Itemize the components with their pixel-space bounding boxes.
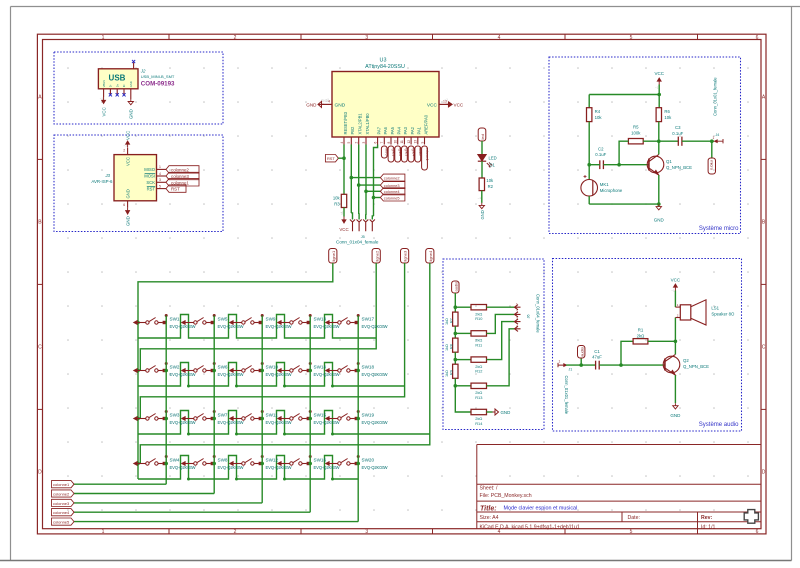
- junction R1 tap: [619, 363, 623, 367]
- wire to micro tag: [711, 141, 713, 158]
- wire ligne1 feeder: [138, 263, 333, 323]
- svg-text:SW18: SW18: [362, 364, 375, 369]
- svg-text:Mode clavier espion et musical: Mode clavier espion et musical: [504, 506, 578, 512]
- tag RST near U3: [325, 155, 338, 162]
- svg-text:VBUS: VBUS: [102, 80, 106, 87]
- wire R14 to GND: [487, 411, 493, 413]
- J3 top pin + VCC: [127, 148, 129, 155]
- svg-text:1kΩ: 1kΩ: [445, 370, 449, 377]
- svg-text:COM-09193: COM-09193: [141, 81, 175, 88]
- wire C1 to base: [599, 364, 665, 366]
- wire collector up: [658, 141, 660, 154]
- svg-text:J4: J4: [716, 133, 720, 137]
- svg-text:SW1: SW1: [170, 316, 180, 321]
- svg-text:colonne5: colonne5: [53, 520, 70, 525]
- resistor R11: [471, 331, 487, 336]
- svg-text:colonne2: colonne2: [171, 167, 189, 172]
- svg-text:SW8: SW8: [218, 457, 228, 462]
- svg-text:PA2: PA2: [410, 126, 415, 134]
- switch SW1: [134, 321, 138, 325]
- tag colonne5 (U3): [380, 194, 405, 201]
- svg-text:EVQ-Q2K03W: EVQ-Q2K03W: [314, 372, 340, 377]
- svg-text:1: 1: [516, 303, 518, 307]
- svg-text:RESET/PB3: RESET/PB3: [343, 111, 348, 134]
- svg-text:1kΩ: 1kΩ: [445, 318, 449, 325]
- switch SW11: [230, 417, 234, 421]
- wire collector up to speaker: [674, 318, 676, 355]
- wire R2 to GND: [481, 191, 483, 203]
- svg-text:~1: ~1: [655, 86, 659, 90]
- dashed box DAC ladder: [443, 259, 544, 430]
- svg-text:6: 6: [756, 529, 759, 535]
- wire C3 to connector J4: [682, 140, 714, 142]
- title block: [477, 444, 761, 446]
- tag colonne4 (bottom): [52, 509, 75, 516]
- svg-text:EVQ-Q2K03W: EVQ-Q2K03W: [362, 420, 388, 425]
- svg-text:SW4: SW4: [170, 457, 180, 462]
- wire row 3 bus with hops: [138, 411, 430, 435]
- svg-text:R8: R8: [449, 344, 453, 349]
- svg-text:RST: RST: [147, 186, 156, 191]
- wire VCC down: [658, 85, 660, 108]
- wire R4 down to C2 node: [588, 122, 590, 180]
- junction ladder row 4: [454, 384, 458, 388]
- svg-text:EVQ-Q2K03W: EVQ-Q2K03W: [314, 420, 340, 425]
- svg-text:R13: R13: [475, 395, 482, 400]
- tag colonne2 (U3): [380, 174, 405, 181]
- wire R5 left + down to base node: [619, 141, 628, 165]
- svg-text:U3: U3: [380, 58, 387, 64]
- svg-text:5: 5: [159, 184, 161, 188]
- svg-text:LS1: LS1: [711, 306, 719, 311]
- svg-text:Système micro: Système micro: [699, 226, 739, 232]
- svg-text:SW7: SW7: [218, 412, 228, 417]
- microphone MK1: [581, 180, 598, 197]
- connector J5 Conn_01x04_female: [350, 220, 355, 232]
- svg-text:ligne3: ligne3: [403, 250, 408, 261]
- svg-text:MISO: MISO: [144, 167, 155, 172]
- svg-text:R4: R4: [595, 109, 601, 114]
- svg-text:47uF: 47uF: [592, 354, 602, 359]
- svg-text:RST: RST: [171, 187, 180, 192]
- svg-text:ATtiny84-20SSU: ATtiny84-20SSU: [365, 64, 405, 70]
- svg-text:EVQ-Q2K03W: EVQ-Q2K03W: [362, 324, 388, 329]
- svg-text:1kΩ: 1kΩ: [445, 344, 449, 351]
- tag audio (vertical): [578, 346, 585, 359]
- switch SW19: [326, 417, 330, 421]
- tag colonne2 at MISO: [166, 166, 199, 173]
- mouse cursor crosshair: [744, 510, 758, 524]
- wire to tag colonne2: [351, 177, 380, 179]
- switch SW18: [326, 369, 330, 373]
- tag colonne3 (bottom): [52, 499, 75, 506]
- svg-text:SW6: SW6: [218, 364, 228, 369]
- switch SW17: [326, 321, 330, 325]
- junction micro output: [710, 139, 714, 143]
- top tag ligne2: [372, 249, 380, 264]
- tag colonne2 (bottom): [52, 490, 75, 497]
- svg-text:VCC: VCC: [654, 71, 664, 76]
- resistor R7: [453, 312, 458, 326]
- svg-text:led: led: [480, 134, 485, 139]
- wire R8-R9: [454, 352, 456, 364]
- wire row 1 left: [455, 306, 471, 308]
- svg-text:A: A: [38, 95, 42, 101]
- switch SW15: [278, 417, 282, 421]
- wire emitter down: [658, 175, 660, 204]
- svg-text:GND: GND: [129, 81, 133, 87]
- svg-text:9: 9: [420, 142, 424, 144]
- svg-text:micro: micro: [709, 160, 714, 171]
- tag colonne1 at SCK: [166, 179, 199, 186]
- svg-text:Q2: Q2: [683, 358, 689, 363]
- wire row 2 bus with hops: [138, 363, 405, 387]
- wire ligne3 feeder staircase: [140, 263, 404, 419]
- switch SW2: [134, 369, 138, 373]
- wire row 2 left: [455, 332, 471, 334]
- svg-text:colonne3: colonne3: [53, 501, 70, 506]
- svg-text:R12: R12: [475, 369, 482, 374]
- junction audio tag node: [579, 363, 583, 367]
- svg-text:R1: R1: [638, 328, 644, 333]
- svg-text:Q1: Q1: [666, 159, 672, 164]
- svg-text:SCK: SCK: [146, 180, 155, 185]
- svg-text:5: 5: [347, 142, 351, 144]
- svg-text:B: B: [38, 220, 42, 226]
- svg-text:EVQ-Q2K03W: EVQ-Q2K03W: [218, 420, 244, 425]
- connector J4 Conn_01x01_female: [715, 139, 724, 143]
- U3 VCC pin (right): [439, 103, 452, 105]
- svg-text:SW5: SW5: [218, 316, 228, 321]
- junction R4/C2/mic: [587, 163, 591, 167]
- junction collector audio: [674, 340, 678, 344]
- svg-text:C: C: [38, 345, 42, 351]
- resistor R2: [479, 178, 484, 191]
- svg-text:R11: R11: [475, 342, 482, 347]
- svg-text:2: 2: [355, 142, 359, 144]
- svg-text:USB: USB: [109, 74, 126, 83]
- resistor R13: [471, 383, 487, 388]
- resistor R12: [471, 357, 487, 362]
- dashed box USB section: [54, 52, 223, 124]
- svg-text:VCC: VCC: [427, 103, 438, 109]
- capacitor C3: [677, 137, 679, 146]
- svg-text:GND: GND: [335, 103, 346, 109]
- wire R5 to C3: [643, 140, 678, 142]
- svg-text:0.1uF: 0.1uF: [595, 152, 606, 157]
- svg-text:VCC: VCC: [101, 107, 106, 116]
- svg-text:13: 13: [414, 140, 418, 144]
- svg-text:B: B: [762, 220, 766, 226]
- svg-text:2: 2: [516, 310, 518, 314]
- svg-text:10k: 10k: [486, 178, 494, 183]
- svg-text:1: 1: [159, 165, 161, 169]
- J2 no-connect marks: [109, 93, 112, 96]
- svg-text:VCC: VCC: [125, 157, 130, 166]
- svg-text:3: 3: [516, 317, 518, 321]
- svg-text:C1: C1: [594, 349, 600, 354]
- svg-text:6: 6: [756, 35, 759, 41]
- wire up to R1: [621, 341, 633, 365]
- svg-text:R10: R10: [475, 316, 483, 321]
- svg-text:C2: C2: [598, 146, 604, 151]
- power GND micro: [656, 204, 661, 210]
- svg-text:1: 1: [677, 303, 679, 307]
- wire R11 to pin2: [487, 314, 515, 333]
- wire to tag colonne3: [359, 184, 381, 186]
- resistor R1: [633, 339, 648, 344]
- window canvas edge (gray): [10, 7, 12, 561]
- svg-text:VCC: VCC: [454, 103, 464, 108]
- wire colonne4 horizontal: [74, 511, 310, 513]
- tag RST at RST pin: [166, 185, 186, 192]
- svg-text:PA1: PA1: [417, 126, 422, 134]
- wire colonne5 horizontal: [74, 521, 358, 523]
- svg-text:GND: GND: [126, 216, 131, 226]
- svg-text:EVQ-Q2K03W: EVQ-Q2K03W: [266, 324, 292, 329]
- wire VCC to speaker: [674, 291, 676, 308]
- wire R13 to pin4: [487, 329, 515, 386]
- junction row 1 spine: [136, 321, 140, 325]
- svg-text:Title:: Title:: [480, 505, 497, 512]
- svg-text:File: PCB_Monkey.sch: File: PCB_Monkey.sch: [480, 493, 532, 499]
- svg-text:R9: R9: [449, 370, 453, 375]
- svg-text:PA5: PA5: [390, 126, 395, 134]
- svg-text:ID: ID: [122, 84, 126, 87]
- junction base node: [617, 163, 621, 167]
- svg-text:11: 11: [400, 140, 404, 144]
- svg-text:D-: D-: [109, 84, 113, 87]
- power VCC below R3: [342, 217, 346, 224]
- svg-text:SW13: SW13: [314, 316, 327, 321]
- wire row 1 bus with hops: [138, 315, 376, 339]
- wire R10 to pin1: [487, 306, 515, 308]
- svg-text:3: 3: [365, 35, 368, 41]
- svg-text:4: 4: [159, 172, 161, 176]
- svg-text:Conn_01x04_female: Conn_01x04_female: [336, 240, 379, 245]
- svg-text:colonne4: colonne4: [53, 510, 70, 515]
- svg-text:D: D: [762, 470, 766, 476]
- svg-text:GND: GND: [654, 218, 665, 223]
- svg-text:GND: GND: [125, 189, 130, 198]
- svg-text:GND: GND: [501, 410, 511, 415]
- svg-text:PA3: PA3: [403, 126, 408, 134]
- svg-text:EVQ-Q2K03W: EVQ-Q2K03W: [170, 465, 196, 470]
- wire C2 left: [589, 164, 600, 166]
- svg-text:XTAL2/PB1: XTAL2/PB1: [358, 113, 363, 135]
- transistor Q1: [647, 156, 664, 173]
- svg-text:SW2: SW2: [170, 364, 180, 369]
- junction XTAL1/colonne4: [364, 190, 368, 194]
- wire row 3 left: [455, 359, 471, 361]
- svg-text:MK1: MK1: [600, 182, 609, 187]
- junction row 4 spine: [136, 462, 140, 466]
- svg-text:R14: R14: [475, 421, 483, 426]
- wire colonne1 horizontal: [74, 483, 166, 485]
- svg-text:J2: J2: [140, 69, 146, 74]
- svg-text:PA7: PA7: [376, 126, 381, 134]
- svg-text:R5: R5: [633, 125, 639, 130]
- switch SW16: [278, 462, 282, 466]
- J3 bottom pin + GND: [127, 201, 129, 208]
- svg-text:colonne2: colonne2: [384, 175, 400, 180]
- svg-text:audio: audio: [579, 346, 584, 357]
- svg-text:Conn_01x01_female: Conn_01x01_female: [564, 376, 569, 415]
- svg-text:EVQ-Q2K03W: EVQ-Q2K03W: [170, 324, 196, 329]
- svg-text:C3: C3: [675, 125, 681, 130]
- capacitor C2: [599, 160, 601, 169]
- svg-text:SW14: SW14: [314, 364, 327, 369]
- wire to tag colonne4: [366, 190, 380, 192]
- tag colonne5 (bottom): [52, 518, 75, 525]
- power GND below J2: [128, 99, 133, 105]
- svg-text:PB2: PB2: [350, 126, 355, 134]
- svg-text:SW11: SW11: [266, 412, 279, 417]
- svg-text:Système audio: Système audio: [699, 422, 739, 428]
- LED D1: [478, 155, 486, 162]
- connector J2 USB body: [98, 69, 138, 89]
- svg-text:ligne4: ligne4: [428, 250, 433, 261]
- power GND audio: [673, 403, 678, 409]
- svg-text:Q_NPN_BCE: Q_NPN_BCE: [683, 364, 709, 369]
- switch SW4: [134, 462, 138, 466]
- svg-text:Conn_01x01_female: Conn_01x01_female: [713, 77, 718, 116]
- resistor R4: [587, 108, 592, 122]
- svg-text:colonne1: colonne1: [425, 148, 429, 161]
- svg-text:~1: ~1: [124, 144, 128, 148]
- resistor R9: [453, 364, 458, 378]
- svg-text:USB_MINI-B_SMT: USB_MINI-B_SMT: [141, 74, 175, 79]
- wire to tag colonne5: [374, 197, 381, 199]
- wires into connector J5: [351, 213, 352, 220]
- switch SW5: [182, 321, 186, 325]
- svg-text:5: 5: [630, 35, 633, 41]
- wire column 2 output drop: [213, 316, 215, 494]
- svg-text:SW9: SW9: [266, 316, 276, 321]
- svg-text:3: 3: [362, 142, 366, 144]
- wire RST to RESET pin: [338, 157, 344, 159]
- svg-text:1: 1: [559, 359, 561, 363]
- svg-text:12: 12: [407, 140, 411, 144]
- connector J1 Conn_01x01_female: [558, 363, 567, 367]
- junction VCC node: [657, 93, 661, 97]
- wire C2 right to base: [603, 164, 649, 166]
- svg-text:8: 8: [387, 142, 391, 144]
- wire PB2 down: [350, 145, 352, 214]
- connector J6 Conn_01x04_female: [515, 305, 521, 310]
- svg-text:colonne4: colonne4: [384, 189, 401, 194]
- svg-text:EVQ-Q2K03W: EVQ-Q2K03W: [170, 372, 196, 377]
- resistor R6: [656, 108, 661, 122]
- svg-text:~1: ~1: [671, 289, 675, 293]
- junction RESET: [342, 156, 346, 160]
- junction ladder row 1: [454, 305, 458, 309]
- svg-text:Conn_01x04_female: Conn_01x04_female: [536, 294, 541, 333]
- dashed box AVR-ISP section: [54, 135, 223, 232]
- svg-text:KiCad E.D.A. kicad 5.1.9+dfsg: KiCad E.D.A. kicad 5.1.9+dfsg1-1+deb11u1: [480, 524, 580, 530]
- svg-text:colonne2: colonne2: [53, 491, 70, 496]
- wire to R4: [588, 95, 590, 108]
- power GND DAC (rotated right): [493, 409, 499, 415]
- svg-text:EVQ-Q2K03W: EVQ-Q2K03W: [266, 372, 292, 377]
- svg-text:EVQ-Q2K03W: EVQ-Q2K03W: [314, 465, 340, 470]
- svg-text:SW16: SW16: [314, 457, 327, 462]
- resistor R10: [471, 305, 487, 310]
- wire R3 to VCC: [343, 208, 345, 217]
- svg-text:2kΩ: 2kΩ: [637, 334, 646, 339]
- svg-text:3: 3: [365, 529, 368, 535]
- svg-text:3: 3: [159, 178, 161, 182]
- wire R12 to pin3: [487, 322, 515, 360]
- svg-text:Date:: Date:: [628, 515, 640, 521]
- svg-text:~1: ~1: [326, 98, 330, 102]
- svg-text:ligne1: ligne1: [331, 250, 336, 261]
- svg-text:RST: RST: [327, 156, 335, 161]
- wire colonne3 horizontal: [74, 502, 262, 504]
- svg-text:MOSI: MOSI: [144, 174, 155, 179]
- svg-text:SW12: SW12: [266, 457, 279, 462]
- svg-text:J1: J1: [569, 368, 573, 372]
- power GND below R2: [479, 203, 484, 209]
- svg-text:SW3: SW3: [170, 412, 180, 417]
- svg-text:~1: ~1: [445, 98, 449, 102]
- svg-text:C: C: [762, 345, 766, 351]
- svg-text:PA4: PA4: [397, 126, 402, 134]
- junction PA7/colonne5: [372, 196, 376, 200]
- svg-text:EVQ-Q2K03W: EVQ-Q2K03W: [170, 420, 196, 425]
- top tag ligne4: [426, 249, 434, 264]
- svg-text:GND: GND: [480, 210, 485, 219]
- svg-text:4: 4: [516, 324, 518, 328]
- wire XTAL1 down: [365, 145, 367, 216]
- tag colonne1 (bottom): [52, 481, 75, 488]
- svg-text:1: 1: [102, 529, 105, 535]
- svg-text:colonne1: colonne1: [53, 482, 70, 487]
- svg-text:audio: audio: [453, 281, 458, 292]
- svg-text:D+: D+: [115, 83, 119, 87]
- svg-text:AREF/PA0: AREF/PA0: [423, 114, 428, 134]
- svg-text:10: 10: [394, 140, 398, 144]
- wire column 5 output drop: [357, 316, 359, 522]
- svg-text:0.1uF: 0.1uF: [672, 131, 683, 136]
- wire row 4 bus with hops: [138, 456, 358, 480]
- tag audio (DAC, vertical): [452, 281, 459, 293]
- svg-text:GND: GND: [670, 413, 681, 418]
- junction XTAL2/colonne3: [357, 183, 361, 187]
- tag led (vertical): [478, 128, 486, 141]
- switch SW13: [278, 321, 282, 325]
- svg-text:SW15: SW15: [314, 412, 327, 417]
- dashed box systeme audio: [553, 259, 742, 432]
- speaker LS1: [675, 306, 680, 308]
- junction row 2 spine: [136, 369, 140, 373]
- svg-text:Q_NPN_BCE: Q_NPN_BCE: [666, 165, 692, 170]
- svg-text:2: 2: [677, 313, 679, 317]
- switch SW12: [230, 462, 234, 466]
- switch SW8: [182, 462, 186, 466]
- svg-text:GND: GND: [306, 103, 317, 108]
- wire colonne2 horizontal: [74, 493, 214, 495]
- svg-text:~1: ~1: [340, 211, 344, 215]
- svg-text:GND: GND: [129, 109, 134, 119]
- svg-text:J6: J6: [527, 314, 531, 318]
- transistor Q2: [663, 356, 680, 373]
- svg-text:EVQ-Q2K03W: EVQ-Q2K03W: [266, 420, 292, 425]
- svg-text:2: 2: [234, 529, 237, 535]
- svg-text:J5: J5: [361, 235, 365, 239]
- svg-text:SW10: SW10: [266, 364, 279, 369]
- svg-text:10k: 10k: [664, 115, 672, 120]
